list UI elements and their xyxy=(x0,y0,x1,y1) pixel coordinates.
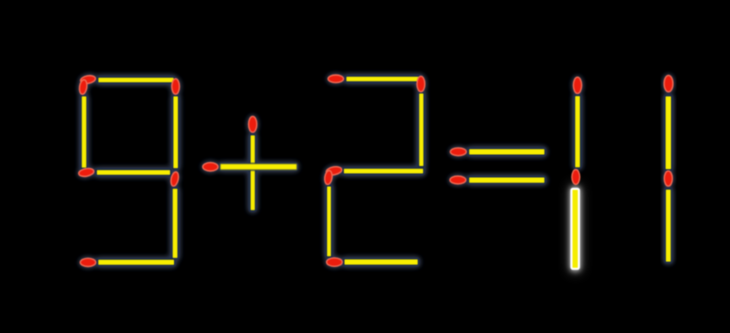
digit 9 : matchstick segment B (top-right vertical) with head xyxy=(172,79,180,169)
digit 2 : matchstick segment B (top-right vertical) with head xyxy=(417,76,425,167)
equals sign : top bar matchstick with head xyxy=(450,148,545,156)
digit 9 : matchstick segment A (top horizontal) with head xyxy=(80,75,175,85)
plus sign : vertical matchstick with head xyxy=(249,116,257,211)
digit 2 : matchstick segment A (top horizontal) with head xyxy=(328,75,422,83)
digit 2 : matchstick segment E (bottom-left vertical) with head xyxy=(324,170,333,257)
digit 2 : matchstick segment D (bottom horizontal) with head xyxy=(327,258,419,266)
digit 9 : matchstick segment C (bottom-right vertical) with head xyxy=(170,171,180,259)
first digit 1 : lower vertical matchstick (highlighted with white glow) with head xyxy=(570,170,580,273)
digit 2 : matchstick segment G (middle horizontal) with head xyxy=(326,166,424,176)
plus sign : horizontal matchstick with head xyxy=(203,163,298,171)
digit 9 : matchstick segment G (middle horizontal) with head xyxy=(78,167,171,177)
second digit 1 : upper vertical matchstick with head xyxy=(664,75,673,170)
first digit 1 : upper vertical matchstick with head xyxy=(573,77,581,168)
digit 9 : matchstick segment F (top-left vertical) with head xyxy=(79,79,88,168)
second digit 1 : lower vertical matchstick with head xyxy=(664,171,672,263)
digit 9 : matchstick segment D (bottom horizontal) with head xyxy=(80,258,175,266)
equals sign : bottom bar matchstick with head xyxy=(450,176,545,184)
